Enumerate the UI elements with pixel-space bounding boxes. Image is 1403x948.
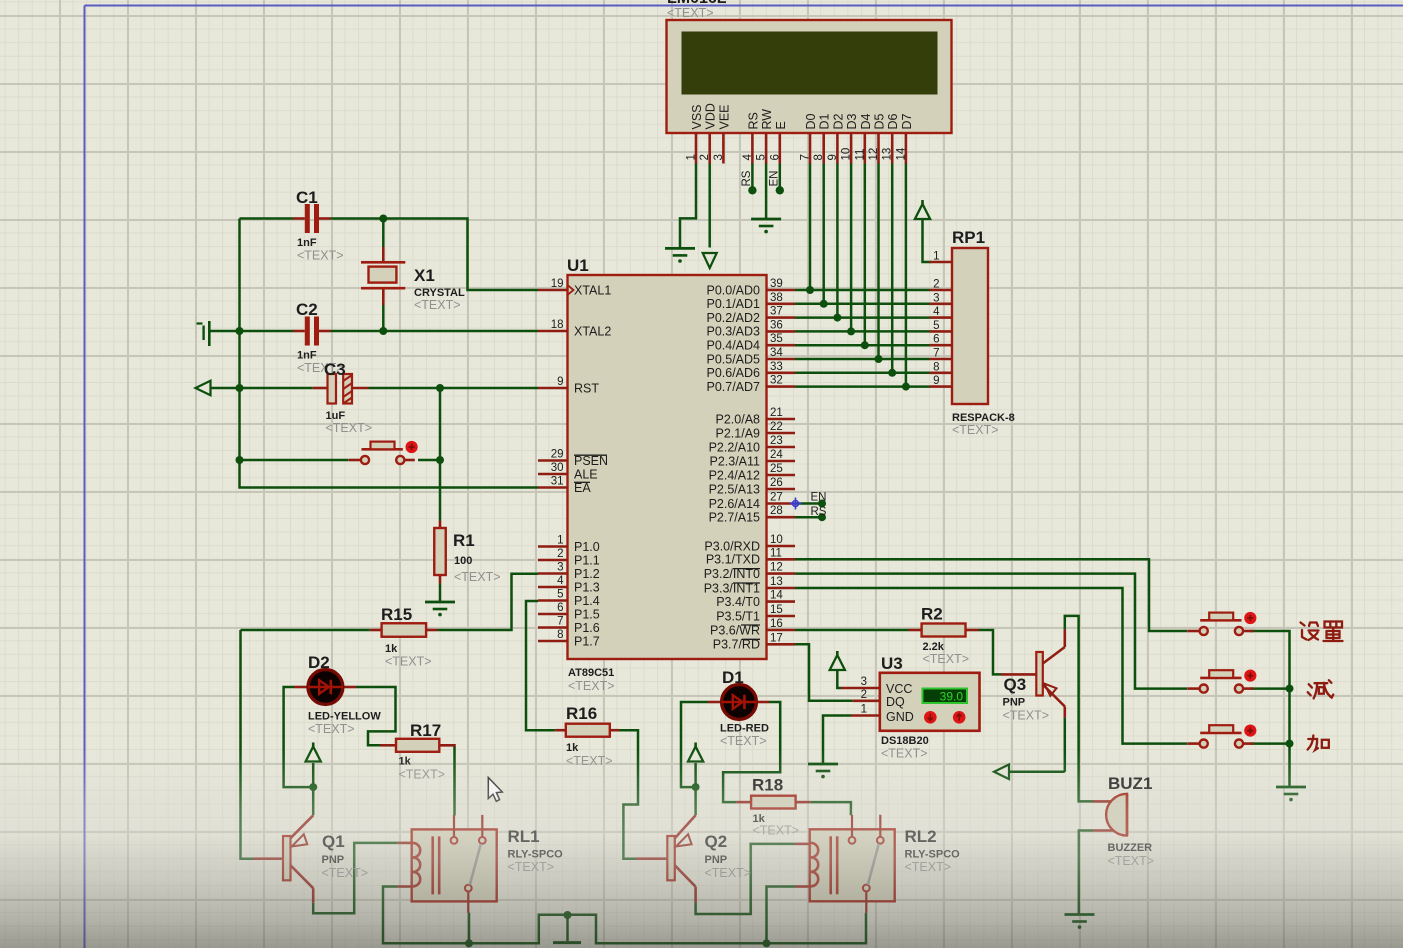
ground (R1) — [425, 602, 455, 616]
svg-text:C1: C1 — [296, 188, 318, 207]
svg-text:E: E — [774, 121, 788, 129]
svg-text:1k: 1k — [566, 742, 579, 754]
relay RL2 RLY-SPCO — [795, 815, 961, 913]
svg-text:5: 5 — [756, 154, 768, 160]
resistor pack RP1 RESPACK-8 — [930, 228, 1015, 437]
node button right — [436, 456, 444, 464]
svg-text:RLY-SPCO: RLY-SPCO — [508, 849, 564, 861]
svg-text:P2.4/A12: P2.4/A12 — [709, 468, 760, 482]
svg-text:R1: R1 — [453, 531, 475, 550]
svg-text:R17: R17 — [410, 721, 441, 740]
ground (U3) — [808, 764, 838, 778]
crystal X1 — [361, 247, 465, 312]
svg-text:D3: D3 — [845, 113, 859, 129]
svg-text:12: 12 — [770, 562, 783, 574]
wire-edit crosshair cursor — [790, 498, 802, 510]
svg-text:4: 4 — [933, 306, 940, 318]
svg-text:<TEXT>: <TEXT> — [308, 722, 355, 736]
svg-text:R15: R15 — [381, 605, 412, 624]
svg-text:11: 11 — [854, 149, 866, 161]
svg-text:1: 1 — [557, 535, 563, 547]
svg-text:7: 7 — [800, 154, 812, 160]
svg-text:P3.4/T0: P3.4/T0 — [716, 595, 760, 609]
node bus RL1 common — [465, 939, 473, 947]
svg-text:DS18B20: DS18B20 — [881, 735, 929, 747]
node RST left — [236, 384, 244, 392]
svg-text:P0.1/AD1: P0.1/AD1 — [706, 297, 760, 311]
node C2-X1 — [379, 327, 387, 335]
mouse cursor — [488, 778, 502, 802]
buzzer BUZ1 — [1093, 774, 1154, 868]
node P0 bus junctions — [806, 286, 910, 391]
svg-text:5: 5 — [933, 320, 939, 332]
resistor R1 100 — [434, 521, 500, 585]
svg-text:39: 39 — [770, 278, 783, 290]
svg-text:VEE: VEE — [717, 104, 731, 129]
node button left — [236, 456, 244, 464]
svg-text:34: 34 — [770, 347, 783, 359]
svg-text:<TEXT>: <TEXT> — [923, 652, 970, 666]
node bus center — [564, 911, 572, 919]
svg-text:31: 31 — [551, 476, 564, 488]
svg-text:21: 21 — [770, 407, 783, 419]
ground (BUZ1) — [1065, 915, 1095, 929]
svg-text:R16: R16 — [566, 704, 597, 723]
ground (LCD RW) — [751, 219, 781, 233]
svg-text:2: 2 — [861, 689, 867, 701]
svg-text:3: 3 — [861, 676, 867, 688]
svg-text:PSEN: PSEN — [574, 454, 608, 468]
svg-text:9: 9 — [557, 376, 563, 388]
svg-text:3: 3 — [713, 154, 725, 160]
svg-text:XTAL1: XTAL1 — [574, 283, 611, 297]
svg-text:12: 12 — [868, 148, 880, 161]
svg-text:23: 23 — [770, 435, 783, 447]
resistor R15 1k — [370, 605, 438, 669]
svg-text:10: 10 — [770, 534, 783, 546]
relay RL1 RLY-SPCO — [397, 815, 563, 913]
svg-text:<TEXT>: <TEXT> — [454, 570, 501, 584]
svg-text:RP1: RP1 — [952, 228, 985, 247]
svg-text:<TEXT>: <TEXT> — [566, 754, 613, 768]
svg-text:1: 1 — [686, 154, 698, 160]
svg-text:<TEXT>: <TEXT> — [952, 423, 999, 437]
svg-text:7: 7 — [557, 616, 563, 628]
svg-text:7: 7 — [933, 348, 939, 360]
svg-text:R18: R18 — [752, 776, 783, 795]
resistor R2 2.2k — [909, 605, 979, 667]
svg-text:GND: GND — [886, 710, 914, 724]
svg-text:10: 10 — [841, 148, 853, 161]
svg-text:Q2: Q2 — [705, 832, 728, 851]
svg-text:6: 6 — [933, 334, 939, 346]
svg-text:17: 17 — [770, 632, 783, 644]
svg-text:EN: EN — [811, 492, 827, 504]
label PLUS (jia) — [1308, 735, 1329, 750]
svg-text:RST: RST — [574, 381, 599, 395]
svg-text:RS: RS — [741, 170, 753, 186]
svg-text:<TEXT>: <TEXT> — [326, 421, 373, 435]
label SET (she zhi) — [1301, 622, 1343, 642]
junction EN — [776, 186, 784, 194]
svg-text:36: 36 — [770, 319, 783, 331]
svg-text:9: 9 — [933, 375, 939, 387]
svg-text:<TEXT>: <TEXT> — [667, 6, 714, 20]
svg-text:<TEXT>: <TEXT> — [297, 249, 344, 263]
svg-text:2: 2 — [557, 548, 563, 560]
svg-text:28: 28 — [770, 505, 783, 517]
svg-text:D2: D2 — [831, 113, 845, 129]
transistor Q3 PNP — [1001, 630, 1065, 723]
svg-text:14: 14 — [895, 147, 907, 160]
temperature sensor U3 DS18B20 — [841, 654, 980, 761]
power +5V arrow (U3 VCC) — [830, 651, 845, 670]
svg-text:P1.6: P1.6 — [574, 621, 600, 635]
svg-text:1k: 1k — [399, 756, 412, 768]
node C1-X1 — [379, 215, 387, 223]
svg-text:RW: RW — [760, 109, 774, 130]
power down arrow (LCD VDD) — [703, 253, 717, 268]
svg-text:P3.0/RXD: P3.0/RXD — [704, 539, 760, 553]
microcontroller U1 AT89C51 — [538, 256, 795, 693]
svg-text:RL1: RL1 — [508, 827, 540, 846]
svg-text:RS: RS — [746, 112, 760, 129]
svg-text:<TEXT>: <TEXT> — [1108, 854, 1155, 868]
node plus row — [1286, 740, 1294, 748]
svg-text:R2: R2 — [921, 605, 943, 624]
svg-text:P3.5/T1: P3.5/T1 — [716, 609, 760, 623]
node EN — [811, 492, 827, 508]
svg-text:37: 37 — [770, 306, 783, 318]
svg-text:P2.1/A9: P2.1/A9 — [716, 426, 761, 440]
svg-text:P2.3/A11: P2.3/A11 — [709, 454, 760, 468]
ground (LCD VSS) — [665, 248, 695, 262]
transistor Q2 PNP — [636, 815, 751, 902]
node bus RL2 coil — [763, 939, 771, 947]
node minus row — [1286, 685, 1294, 693]
power +5V arrow (RP1) — [915, 200, 930, 219]
svg-text:P0.6/AD6: P0.6/AD6 — [706, 366, 760, 380]
svg-text:P0.3/AD3: P0.3/AD3 — [706, 325, 760, 339]
svg-text:32: 32 — [770, 375, 783, 387]
svg-text:<TEXT>: <TEXT> — [905, 860, 952, 874]
svg-text:P1.5: P1.5 — [574, 607, 600, 621]
svg-text:8: 8 — [933, 361, 939, 373]
svg-text:Q1: Q1 — [322, 832, 345, 851]
svg-text:2: 2 — [699, 154, 711, 160]
svg-text:D4: D4 — [859, 113, 873, 129]
svg-text:D7: D7 — [900, 113, 914, 129]
net tag RST — [196, 381, 211, 396]
svg-text:1: 1 — [933, 251, 939, 263]
svg-text:LED-RED: LED-RED — [720, 723, 769, 735]
svg-text:<TEXT>: <TEXT> — [399, 768, 446, 782]
svg-text:30: 30 — [551, 462, 564, 474]
svg-text:19: 19 — [551, 278, 564, 290]
reset push button — [349, 441, 418, 464]
svg-text:P2.6/A14: P2.6/A14 — [709, 497, 760, 511]
svg-text:P2.2/A10: P2.2/A10 — [709, 440, 760, 454]
resistor R17 1k — [380, 721, 456, 782]
wire — [211, 163, 1290, 943]
svg-text:P1.0: P1.0 — [574, 540, 600, 554]
svg-text:<TEXT>: <TEXT> — [508, 860, 555, 874]
svg-text:33: 33 — [770, 361, 783, 373]
svg-text:P1.3: P1.3 — [574, 580, 600, 594]
svg-text:ALE: ALE — [574, 467, 598, 481]
svg-text:PNP: PNP — [1003, 697, 1026, 709]
svg-text:3: 3 — [557, 562, 563, 574]
svg-text:27: 27 — [770, 492, 783, 504]
svg-text:<TEXT>: <TEXT> — [322, 866, 369, 880]
svg-text:39.0: 39.0 — [940, 689, 964, 703]
resistor R18 1k — [736, 776, 810, 838]
svg-text:35: 35 — [770, 333, 783, 345]
capacitor C1 1nF — [293, 188, 344, 263]
svg-text:P0.4/AD4: P0.4/AD4 — [706, 339, 760, 353]
svg-text:8: 8 — [557, 629, 563, 641]
power +5V arrow (Q2 emitter) — [688, 743, 703, 762]
push button PLUS — [1187, 725, 1256, 748]
svg-text:6: 6 — [769, 154, 781, 160]
svg-text:18: 18 — [551, 319, 564, 331]
svg-text:<TEXT>: <TEXT> — [881, 747, 928, 761]
svg-text:6: 6 — [557, 602, 563, 614]
svg-text:25: 25 — [770, 463, 783, 475]
svg-text:2: 2 — [933, 279, 939, 291]
svg-text:16: 16 — [770, 618, 783, 630]
svg-text:D2: D2 — [308, 653, 330, 672]
node D1/Q2 emitter — [692, 783, 700, 791]
svg-text:1: 1 — [861, 704, 867, 716]
svg-text:VSS: VSS — [690, 104, 704, 129]
svg-text:9: 9 — [827, 154, 839, 160]
transistor Q1 PNP — [254, 815, 369, 902]
svg-text:D1: D1 — [722, 668, 744, 687]
ground (C2 left) — [197, 321, 210, 346]
svg-text:<TEXT>: <TEXT> — [705, 866, 752, 880]
svg-text:26: 26 — [770, 477, 783, 489]
svg-text:X1: X1 — [414, 266, 435, 285]
LED D1 LED-RED — [708, 668, 769, 748]
svg-text:11: 11 — [770, 547, 782, 559]
svg-text:EN: EN — [768, 171, 780, 187]
svg-text:C2: C2 — [296, 300, 318, 319]
svg-text:AT89C51: AT89C51 — [568, 667, 614, 679]
svg-text:P0.2/AD2: P0.2/AD2 — [706, 311, 760, 325]
svg-text:13: 13 — [770, 576, 783, 588]
svg-text:4: 4 — [557, 575, 564, 587]
svg-text:RL2: RL2 — [905, 827, 937, 846]
svg-text:XTAL2: XTAL2 — [574, 324, 611, 338]
svg-text:4: 4 — [742, 154, 754, 161]
svg-text:Q3: Q3 — [1004, 675, 1027, 694]
svg-text:PNP: PNP — [322, 854, 345, 866]
svg-text:VDD: VDD — [704, 103, 718, 129]
svg-text:P2.5/A13: P2.5/A13 — [709, 482, 760, 496]
node C2 left — [236, 327, 244, 335]
junction RS — [748, 186, 756, 194]
svg-text:1nF: 1nF — [297, 350, 317, 362]
svg-text:P3.1/TXD: P3.1/TXD — [706, 553, 760, 567]
svg-text:U3: U3 — [881, 654, 903, 673]
svg-text:P1.7: P1.7 — [574, 634, 600, 648]
svg-text:1nF: 1nF — [297, 237, 317, 249]
node RS — [811, 506, 827, 521]
svg-text:LED-YELLOW: LED-YELLOW — [308, 711, 381, 723]
svg-text:C3: C3 — [324, 360, 346, 379]
svg-text:5: 5 — [557, 589, 563, 601]
svg-text:RLY-SPCO: RLY-SPCO — [905, 849, 961, 861]
svg-text:14: 14 — [770, 590, 783, 602]
svg-text:P1.4: P1.4 — [574, 594, 600, 608]
svg-text:3: 3 — [933, 292, 939, 304]
svg-text:PNP: PNP — [705, 854, 728, 866]
node D2/Q1 emitter — [309, 783, 317, 791]
svg-text:22: 22 — [770, 421, 783, 433]
svg-text:1k: 1k — [385, 643, 398, 655]
svg-text:D5: D5 — [873, 113, 887, 129]
svg-text:P0.0/AD0: P0.0/AD0 — [706, 283, 760, 297]
svg-text:BUZZER: BUZZER — [1108, 842, 1153, 854]
push button SET — [1187, 612, 1256, 635]
svg-text:U1: U1 — [567, 256, 589, 275]
resistor R16 1k — [555, 704, 619, 768]
svg-text:24: 24 — [770, 449, 783, 461]
svg-text:BUZ1: BUZ1 — [1108, 774, 1152, 793]
svg-text:D6: D6 — [886, 113, 900, 129]
svg-text:100: 100 — [454, 555, 472, 567]
LCD LM016L LCD1 — [667, 0, 952, 187]
svg-text:P2.0/A8: P2.0/A8 — [716, 412, 761, 426]
svg-text:29: 29 — [551, 449, 564, 461]
svg-text:<TEXT>: <TEXT> — [720, 734, 767, 748]
push button MINUS — [1187, 670, 1256, 693]
svg-text:<TEXT>: <TEXT> — [414, 298, 461, 312]
svg-text:38: 38 — [770, 292, 783, 304]
LED D2 LED-YELLOW — [294, 653, 381, 736]
svg-text:P1.1: P1.1 — [574, 553, 600, 567]
capacitor C2 1nF — [293, 300, 344, 375]
svg-text:8: 8 — [813, 154, 825, 160]
svg-text:<TEXT>: <TEXT> — [568, 679, 615, 693]
svg-text:D1: D1 — [818, 113, 832, 129]
svg-text:P2.7/A15: P2.7/A15 — [709, 511, 760, 525]
svg-text:15: 15 — [770, 604, 783, 616]
svg-text:DQ: DQ — [886, 695, 905, 709]
power +5V arrow (Q1 emitter) — [306, 743, 321, 762]
svg-text:RS: RS — [811, 506, 827, 518]
svg-text:13: 13 — [882, 148, 894, 161]
svg-text:<TEXT>: <TEXT> — [385, 655, 432, 669]
svg-text:<TEXT>: <TEXT> — [753, 824, 800, 838]
svg-text:P0.5/AD5: P0.5/AD5 — [706, 352, 760, 366]
node RST right — [436, 384, 444, 392]
label MINUS (jian) — [1308, 680, 1334, 698]
ground (buttons) — [1276, 787, 1306, 801]
svg-text:P1.2: P1.2 — [574, 567, 600, 581]
svg-text:P0.7/AD7: P0.7/AD7 — [706, 380, 760, 394]
svg-text:D0: D0 — [804, 113, 818, 129]
svg-text:<TEXT>: <TEXT> — [1003, 709, 1050, 723]
capacitor C3 1uF — [313, 360, 372, 435]
net tag (Q3 collector) — [994, 765, 1009, 780]
